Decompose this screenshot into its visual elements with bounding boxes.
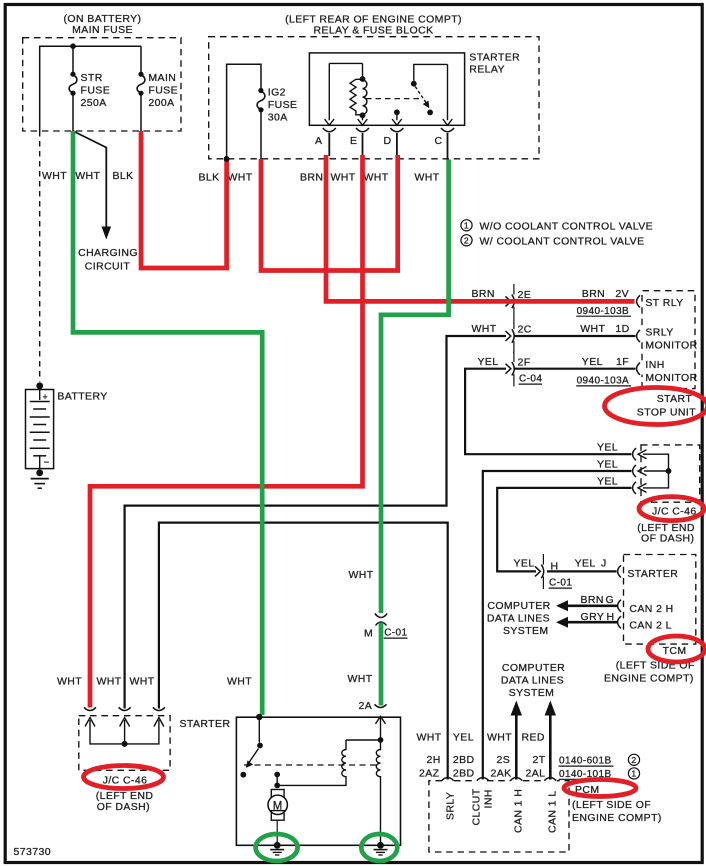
connector C-01 (starter row) bbox=[535, 565, 544, 579]
PCM box top segments between pins bbox=[454, 780, 545, 782]
svg-text:YEL: YEL bbox=[597, 441, 618, 453]
wire: A stub bbox=[328, 133, 330, 156]
cup CAN 1 H pin bbox=[510, 778, 522, 781]
highlight ellipse TCM bbox=[648, 636, 705, 662]
highlight ellipse ground motor bbox=[256, 834, 298, 861]
wire: WHT relay pin C to starter 2A (green upper) bbox=[381, 160, 449, 614]
svg-text:ENGINE COMPT): ENGINE COMPT) bbox=[604, 673, 694, 685]
svg-text:CAN 2 H: CAN 2 H bbox=[629, 603, 673, 615]
highlight ellipse PCM bbox=[564, 780, 636, 797]
arrow t3 bbox=[154, 718, 164, 727]
svg-text:WHT: WHT bbox=[227, 676, 252, 688]
cup STARTER (TCM) bbox=[618, 565, 621, 577]
svg-text:WHT: WHT bbox=[580, 323, 605, 335]
wire: WHT IG2 to relay pin D (red) bbox=[261, 155, 398, 271]
cup ST RLY bbox=[637, 295, 640, 307]
svg-text:DATA LINES: DATA LINES bbox=[487, 613, 550, 625]
cup SRLY bbox=[637, 330, 640, 342]
svg-text:−: − bbox=[44, 458, 50, 469]
node: right J/C junction dot bbox=[666, 468, 672, 474]
svg-text:E: E bbox=[350, 135, 357, 147]
svg-text:STARTER: STARTER bbox=[469, 51, 520, 63]
note 1 circled (ref) bbox=[628, 768, 639, 779]
wire: MAIN fuse lower lead bbox=[140, 93, 142, 131]
fuse STR FUSE 250A bbox=[70, 72, 75, 77]
svg-text:MAIN: MAIN bbox=[148, 72, 176, 84]
svg-text:GRY: GRY bbox=[581, 611, 605, 623]
svg-text:CHARGING: CHARGING bbox=[78, 247, 138, 259]
svg-text:COMPUTER: COMPUTER bbox=[502, 662, 565, 674]
wire: relay pin E lower lead bbox=[362, 115, 364, 120]
svg-text:30A: 30A bbox=[268, 111, 288, 123]
battery body bbox=[39, 386, 41, 400]
highlight ellipse left J/C C-46 bbox=[84, 766, 164, 789]
node: left J/C junction dot bbox=[122, 741, 128, 747]
left J/C C-46 dashed box bbox=[79, 716, 170, 771]
svg-text:2C: 2C bbox=[518, 323, 532, 335]
node: coil top dot bbox=[360, 76, 366, 82]
svg-text:200A: 200A bbox=[148, 97, 174, 109]
arrow pin A bbox=[325, 119, 335, 125]
svg-text:FUSE: FUSE bbox=[268, 99, 298, 111]
wire: relay pin A lead bbox=[328, 63, 330, 120]
starter relay box bbox=[309, 53, 464, 125]
cup INH bbox=[637, 363, 640, 375]
wire: MAIN fuse upper lead bbox=[140, 46, 142, 73]
svg-text:STARTER: STARTER bbox=[180, 718, 231, 730]
svg-text:CAN 1 L: CAN 1 L bbox=[547, 791, 559, 833]
connector 2C bbox=[506, 329, 515, 343]
node: STR entry dot over green bbox=[256, 714, 262, 720]
starter switch arm bbox=[249, 749, 259, 763]
svg-text:WHT: WHT bbox=[228, 172, 253, 184]
wire: BRN relay pin A to SSU 2E (red) bbox=[326, 155, 635, 301]
svg-text:A: A bbox=[315, 135, 322, 147]
svg-text:BRN: BRN bbox=[472, 288, 495, 300]
svg-text:J: J bbox=[601, 558, 607, 570]
svg-text:2AK: 2AK bbox=[491, 767, 512, 779]
arrow to charging circuit bbox=[102, 227, 112, 240]
svg-text:INH: INH bbox=[645, 359, 664, 371]
connector M C-01 on green wire bbox=[375, 614, 387, 618]
highlight ellipse START STOP UNIT bbox=[605, 388, 706, 425]
SSU placeholder bbox=[597, 441, 700, 544]
svg-text:MONITOR: MONITOR bbox=[645, 339, 697, 351]
node: BLK junction dot bbox=[224, 156, 230, 162]
wire: WHT SRLY-monitor route (SSU 2C to J/C C-46) bbox=[125, 336, 506, 709]
arrow into row3 bbox=[638, 483, 647, 492]
wire: relay coil bar A-E bbox=[329, 62, 362, 64]
svg-text:C-04: C-04 bbox=[519, 374, 542, 385]
wire: WHT SRLY route (J/C C-46 to PCM) bbox=[159, 523, 448, 780]
svg-text:WHT: WHT bbox=[97, 676, 122, 688]
svg-text:YEL: YEL bbox=[453, 731, 474, 743]
relay & fuse block dashed box bbox=[209, 37, 539, 159]
wire: bus bar in main fuse box bbox=[40, 46, 141, 131]
svg-text:WHT: WHT bbox=[417, 731, 442, 743]
svg-text:+: + bbox=[43, 392, 49, 402]
svg-text:OF DASH): OF DASH) bbox=[97, 801, 150, 813]
wire: CAN 1 L arrow up bbox=[549, 714, 552, 780]
svg-text:SRLY: SRLY bbox=[645, 326, 673, 338]
cup left J/C t1 bbox=[84, 707, 96, 710]
svg-text:2: 2 bbox=[464, 236, 469, 246]
wire: E stub bbox=[362, 133, 364, 156]
wire: left J/C inner links bbox=[90, 720, 159, 744]
svg-text:BRN: BRN bbox=[582, 288, 605, 300]
svg-text:0940-103A: 0940-103A bbox=[577, 376, 630, 387]
node: pin D contact dot bbox=[394, 109, 400, 115]
wire: coil bar bbox=[346, 739, 381, 741]
wire: IG2 fuse output lead bbox=[260, 110, 262, 159]
relay coil (inductor bumps) bbox=[363, 80, 367, 114]
svg-text:FUSE: FUSE bbox=[148, 85, 178, 97]
svg-text:1F: 1F bbox=[616, 356, 629, 368]
note 2 circled bbox=[461, 235, 472, 246]
svg-text:TCM: TCM bbox=[663, 645, 687, 657]
svg-text:RED: RED bbox=[522, 731, 545, 743]
svg-text:250A: 250A bbox=[81, 97, 107, 109]
svg-text:2BD: 2BD bbox=[453, 754, 475, 766]
svg-text:J/C C-46: J/C C-46 bbox=[652, 506, 697, 518]
TCM dashed box bbox=[624, 555, 696, 645]
ground starter solenoid bbox=[377, 842, 384, 849]
svg-text:CIRCUIT: CIRCUIT bbox=[85, 261, 131, 273]
svg-text:W/ COOLANT CONTROL VALVE: W/ COOLANT CONTROL VALVE bbox=[480, 236, 645, 248]
svg-text:J/C C-46: J/C C-46 bbox=[103, 774, 148, 786]
svg-text:(LEFT REAR OF ENGINE COMPT): (LEFT REAR OF ENGINE COMPT) bbox=[285, 13, 462, 25]
note 2 circled (ref) bbox=[628, 754, 639, 765]
svg-text:WHT: WHT bbox=[331, 172, 356, 184]
svg-text:OF DASH): OF DASH) bbox=[641, 533, 694, 545]
ground starter motor bbox=[274, 842, 281, 849]
svg-text:WHT: WHT bbox=[130, 676, 155, 688]
highlight ellipse right J/C C-46 bbox=[639, 497, 704, 521]
cup SRLY pin bbox=[442, 778, 454, 781]
svg-text:DATA LINES: DATA LINES bbox=[501, 674, 564, 686]
cup right J/C row2 bbox=[633, 465, 636, 477]
svg-text:2T: 2T bbox=[533, 754, 546, 766]
svg-text:WHT: WHT bbox=[75, 170, 100, 182]
main fuse dashed box bbox=[23, 38, 181, 131]
STARTERBOX2 placeholder bbox=[180, 569, 408, 855]
svg-text:STOP UNIT: STOP UNIT bbox=[637, 406, 696, 418]
svg-text:START: START bbox=[657, 393, 693, 405]
node: battery positive dot bbox=[36, 382, 43, 389]
wire: dashed battery feed bbox=[39, 131, 41, 382]
terminal cup D bbox=[390, 128, 403, 132]
cup CAN 2 H bbox=[618, 600, 621, 612]
svg-text:INH: INH bbox=[483, 789, 495, 808]
wire: WHT C-01 to starter 2A (green lower) bbox=[379, 623, 384, 706]
svg-text:2H: 2H bbox=[427, 754, 441, 766]
svg-text:1D: 1D bbox=[615, 323, 629, 335]
svg-text:BLK: BLK bbox=[199, 172, 220, 184]
motor brush upper bbox=[271, 790, 284, 800]
svg-text:BRN: BRN bbox=[581, 594, 604, 606]
node: switch arm contact dot bbox=[427, 110, 433, 116]
solenoid coil 1 bbox=[277, 740, 346, 785]
node: bus junction dot bbox=[70, 43, 76, 49]
svg-text:2E: 2E bbox=[518, 289, 532, 301]
cup right J/C row1 bbox=[633, 448, 636, 460]
svg-text:H: H bbox=[607, 611, 615, 623]
mechanical link dashed (starter) bbox=[244, 764, 378, 766]
svg-text:0140-601B: 0140-601B bbox=[559, 756, 612, 767]
starter box bbox=[236, 717, 400, 845]
svg-text:ENGINE COMPT): ENGINE COMPT) bbox=[572, 812, 662, 824]
svg-text:W/O COOLANT CONTROL VALVE: W/O COOLANT CONTROL VALVE bbox=[480, 221, 654, 233]
wire: D stub bbox=[396, 133, 398, 156]
wire: relay pin E upper lead bbox=[362, 63, 364, 77]
wire: CAN 2 H arrow bbox=[566, 604, 617, 607]
terminal cup E bbox=[356, 128, 369, 132]
svg-text:2A: 2A bbox=[359, 700, 373, 712]
svg-text:M: M bbox=[364, 628, 373, 640]
node: battery negative dot bbox=[36, 469, 43, 476]
svg-text:CLCUT: CLCUT bbox=[471, 788, 483, 825]
note 1 circled bbox=[461, 220, 472, 231]
cup CAN 1 L pin bbox=[544, 778, 556, 781]
cup 2A bbox=[375, 704, 387, 707]
highlight ellipse ground solenoid bbox=[361, 834, 397, 861]
svg-text:BLK: BLK bbox=[113, 170, 134, 182]
svg-text:1: 1 bbox=[464, 221, 469, 231]
svg-text:RELAY: RELAY bbox=[469, 63, 505, 75]
svg-text:2BD: 2BD bbox=[453, 767, 475, 779]
node: STR entry dot bbox=[256, 714, 262, 720]
svg-text:BRN: BRN bbox=[300, 172, 323, 184]
mechanical link dashed bbox=[366, 98, 419, 100]
motor brush lower bbox=[271, 811, 284, 821]
node: motor terminal dot lower bbox=[274, 783, 280, 789]
svg-text:WHT: WHT bbox=[364, 172, 389, 184]
terminal cup A bbox=[323, 128, 336, 132]
node: motor terminal dot upper bbox=[274, 772, 280, 778]
wire: row1 inner link bbox=[643, 454, 669, 488]
switch arm bbox=[415, 87, 426, 104]
connector 2E bbox=[506, 295, 515, 309]
wire: C-01 row right segment to TCM bbox=[547, 570, 617, 572]
svg-text:2V: 2V bbox=[615, 288, 629, 300]
wire: 2F row right segment bbox=[514, 368, 636, 370]
svg-text:IG2: IG2 bbox=[268, 86, 286, 98]
svg-text:MONITOR: MONITOR bbox=[645, 372, 697, 384]
right J/C C-46 dashed box bbox=[641, 445, 700, 502]
svg-text:FUSE: FUSE bbox=[81, 85, 111, 97]
svg-text:YEL: YEL bbox=[514, 558, 535, 570]
TCM placeholder bbox=[57, 676, 170, 813]
svg-text:WHT: WHT bbox=[472, 323, 497, 335]
svg-text:2: 2 bbox=[631, 755, 636, 765]
cup CLCUT/INH pin bbox=[477, 778, 489, 781]
svg-text:C-01: C-01 bbox=[384, 628, 407, 639]
ground battery bbox=[31, 478, 49, 480]
fuse MAIN FUSE 200A bbox=[138, 72, 143, 77]
wire: BLK riser to IG2 bus bbox=[227, 64, 261, 159]
arrow into row2 bbox=[638, 467, 647, 476]
svg-text:2AZ: 2AZ bbox=[419, 767, 440, 779]
start stop unit dashed box bbox=[642, 291, 695, 389]
wire: STR fuse upper lead bbox=[72, 46, 74, 73]
wire: relay switch bar bbox=[414, 64, 448, 80]
svg-text:YEL: YEL bbox=[597, 458, 618, 470]
solenoid coil 2 bbox=[376, 740, 380, 845]
svg-text:2AL: 2AL bbox=[526, 767, 546, 779]
svg-text:WHT: WHT bbox=[349, 569, 374, 581]
motor M circle bbox=[268, 795, 287, 814]
fuse IG2 FUSE 30A bbox=[258, 88, 263, 93]
terminal cup C bbox=[441, 128, 454, 132]
svg-text:COMPUTER: COMPUTER bbox=[487, 600, 550, 612]
svg-text:G: G bbox=[606, 594, 615, 606]
svg-text:BATTERY: BATTERY bbox=[57, 391, 107, 403]
wire: C stub bbox=[447, 133, 449, 160]
switch arm arrowhead bbox=[423, 101, 430, 109]
wire: 2C row right segment bbox=[514, 335, 636, 337]
cup CAN 2 L bbox=[618, 616, 621, 628]
svg-text:RELAY & FUSE BLOCK: RELAY & FUSE BLOCK bbox=[313, 25, 433, 37]
node: 2A node dot bbox=[378, 737, 384, 743]
svg-text:SYSTEM: SYSTEM bbox=[509, 687, 555, 699]
cup right J/C row3 bbox=[633, 482, 636, 494]
svg-text:CAN 1 H: CAN 1 H bbox=[513, 789, 525, 833]
wire: CAN 1 H arrow up bbox=[515, 714, 518, 780]
svg-text:1: 1 bbox=[631, 769, 636, 779]
svg-text:573730: 573730 bbox=[14, 846, 51, 858]
svg-text:H: H bbox=[551, 560, 559, 572]
wire: relay pin D lead bbox=[396, 112, 398, 120]
arrow pin C bbox=[443, 119, 453, 125]
node: starter switch pivot bbox=[257, 743, 263, 749]
wire: motor terminal link bbox=[276, 775, 278, 786]
wire: BLK charging branch bbox=[73, 131, 106, 227]
svg-text:CAN 2 L: CAN 2 L bbox=[629, 620, 671, 632]
arrow into row1 bbox=[638, 450, 647, 459]
node: starter switch contact dot bbox=[240, 772, 246, 778]
wire: YEL route (right J/C row3 to C-01) bbox=[497, 488, 631, 572]
svg-text:D: D bbox=[384, 135, 392, 147]
starter switch arm arrowhead bbox=[246, 760, 253, 768]
svg-text:0940-103B: 0940-103B bbox=[577, 306, 630, 317]
svg-text:YEL: YEL bbox=[478, 356, 499, 368]
wire: switch feed bbox=[258, 717, 260, 742]
svg-text:YEL: YEL bbox=[582, 356, 603, 368]
wire: YEL route (right J/C row2 to PCM 2BD) bbox=[483, 471, 632, 780]
cup left J/C t2 bbox=[119, 707, 131, 710]
relay coil parallel resistor bbox=[350, 79, 363, 115]
wire: CAN 2 L arrow bbox=[566, 621, 617, 624]
wire: motor to ground bbox=[276, 820, 278, 845]
svg-text:SYSTEM: SYSTEM bbox=[503, 625, 549, 637]
svg-text:C-01: C-01 bbox=[549, 578, 572, 589]
node: switch pivot bbox=[411, 81, 417, 87]
svg-text:STR: STR bbox=[81, 72, 103, 84]
svg-text:STARTER: STARTER bbox=[627, 568, 678, 580]
svg-text:WHT: WHT bbox=[57, 676, 82, 688]
wire: WHT main-fuse to relay block (red) bbox=[141, 131, 227, 268]
svg-text:WHT: WHT bbox=[487, 731, 512, 743]
node: BLK junction dot over red bbox=[224, 156, 230, 162]
svg-text:ST RLY: ST RLY bbox=[645, 297, 683, 309]
svg-text:MAIN FUSE: MAIN FUSE bbox=[72, 24, 133, 36]
wire: YEL INH route (SSU 2F to right J/C C-46 row1) bbox=[465, 369, 631, 455]
wire: 2A lead bbox=[380, 718, 382, 741]
arrow pin E bbox=[358, 119, 368, 125]
svg-text:WHT: WHT bbox=[42, 170, 67, 182]
svg-text:WHT: WHT bbox=[415, 172, 440, 184]
arrow pin D bbox=[392, 119, 402, 125]
wire: WHT STR fuse to starter (green) bbox=[73, 131, 262, 715]
wire: WHT relay pin E to left J/C C-46 (red) bbox=[90, 155, 363, 708]
wire: relay pin C lead bbox=[447, 64, 449, 120]
connector 2F bbox=[506, 362, 515, 376]
arrow t1 bbox=[85, 718, 95, 727]
svg-text:(LEFT SIDE OF: (LEFT SIDE OF bbox=[572, 799, 651, 811]
svg-text:2F: 2F bbox=[518, 356, 531, 368]
svg-text:YEL: YEL bbox=[575, 558, 596, 570]
arrow t2 bbox=[120, 718, 130, 727]
svg-text:C: C bbox=[435, 135, 443, 147]
svg-text:2S: 2S bbox=[497, 754, 511, 766]
svg-text:(ON BATTERY): (ON BATTERY) bbox=[64, 13, 142, 25]
cup left J/C t3 bbox=[153, 707, 165, 710]
svg-text:WHT: WHT bbox=[348, 673, 373, 685]
node: coil bottom dot bbox=[360, 112, 366, 118]
svg-text:YEL: YEL bbox=[597, 475, 618, 487]
svg-text:SRLY: SRLY bbox=[445, 792, 457, 820]
arrow 2A into box bbox=[376, 716, 386, 723]
PCM dashed box bbox=[429, 781, 569, 852]
battery plates bbox=[30, 401, 50, 403]
wire: STR fuse lower lead bbox=[72, 93, 74, 131]
